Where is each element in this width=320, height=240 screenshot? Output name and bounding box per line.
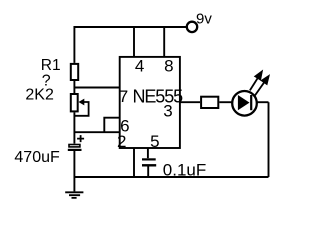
svg-text:8: 8 <box>164 57 173 76</box>
svg-text:4: 4 <box>135 57 144 76</box>
svg-text:470uF: 470uF <box>14 149 60 166</box>
svg-text:5: 5 <box>150 132 159 151</box>
svg-text:3: 3 <box>163 102 172 121</box>
svg-text:9v: 9v <box>196 11 212 28</box>
svg-text:2: 2 <box>117 132 126 151</box>
svg-text:2K2: 2K2 <box>25 87 54 104</box>
svg-text:NE555: NE555 <box>133 86 184 106</box>
svg-text:7: 7 <box>119 87 128 106</box>
svg-text:0.1uF: 0.1uF <box>163 160 206 179</box>
